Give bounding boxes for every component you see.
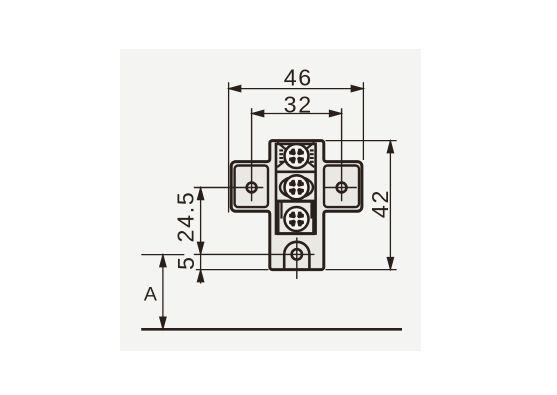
svg-text:32: 32: [284, 91, 313, 117]
dimension 42 extension lines: [326, 141, 397, 270]
right wing inner contour: [324, 166, 359, 208]
separator line 1: [276, 171, 316, 174]
dimension 5 bottom extension: [196, 269, 269, 271]
left hole: [247, 183, 257, 193]
right hole: [337, 183, 347, 193]
left wing inner contour: [235, 166, 268, 208]
screw S2 oval slot: [280, 177, 313, 198]
plate outline: [231, 141, 362, 270]
slot box: [276, 144, 316, 234]
bottom tab dome: [284, 242, 309, 269]
right hole crosshair: [325, 108, 357, 201]
svg-text:42: 42: [367, 189, 393, 218]
separator line 2: [276, 200, 316, 203]
panel background: [120, 49, 421, 351]
bottom hole crosshair: [194, 238, 315, 280]
screw S1: [285, 144, 309, 168]
bottom hole: [292, 249, 302, 259]
svg-text:5: 5: [173, 255, 199, 270]
dimension 32 line: [252, 110, 342, 116]
screw S2: [285, 175, 309, 199]
dimension 46 line: [229, 86, 364, 92]
svg-text:24.5: 24.5: [173, 191, 199, 243]
screw S3 pocket: [277, 201, 315, 233]
screw S3: [285, 207, 309, 231]
dimension 42 line: [387, 141, 393, 270]
screw S1 serrations: [279, 150, 313, 161]
dimension A top extension: [141, 254, 184, 256]
dimension A line: [160, 255, 166, 330]
left hole crosshair: [194, 108, 263, 201]
svg-text:46: 46: [284, 65, 313, 91]
svg-text:A: A: [144, 284, 157, 306]
dimension 24.5 line: [198, 188, 204, 255]
mounting surface line: [141, 328, 402, 331]
dimension 46 extension lines: [229, 82, 364, 212]
screw S1 pocket chamfers: [277, 142, 314, 167]
dimension 5 line: [198, 254, 204, 283]
